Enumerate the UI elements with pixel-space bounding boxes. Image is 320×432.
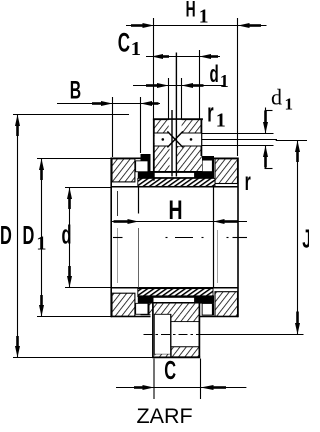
flange left face line <box>110 158 112 318</box>
sleeve small centreline <box>144 334 201 336</box>
svg-text:B: B <box>70 77 81 105</box>
svg-text:r: r <box>245 168 251 196</box>
body bottom edge line <box>111 316 238 318</box>
dimension B <box>57 77 160 157</box>
title ZARF <box>137 404 193 428</box>
svg-text:J: J <box>302 224 309 254</box>
svg-text:1: 1 <box>131 38 141 60</box>
cage row lines extending right <box>202 134 277 146</box>
bore surface bottom line <box>111 287 238 289</box>
dimension C <box>116 355 246 399</box>
seal black band bottom <box>138 295 214 315</box>
axial roller with X cross <box>167 131 183 147</box>
dimension d <box>62 188 112 288</box>
dimension d1 top <box>133 62 229 119</box>
cage pocket white square left bottom <box>135 303 148 315</box>
bore surface top line <box>111 186 238 188</box>
svg-text:1: 1 <box>36 233 46 255</box>
cage centre dots <box>162 138 193 141</box>
shaft washer bottom hatch band <box>150 304 200 315</box>
sleeve right end line seen through bore <box>213 187 215 288</box>
sleeve divider line <box>170 314 172 357</box>
flange inner face line seen through bore <box>138 187 140 288</box>
svg-text:H: H <box>169 195 183 225</box>
main centreline <box>113 237 247 239</box>
needle roller band top (rope pattern) <box>138 178 215 186</box>
svg-text:1: 1 <box>220 71 229 91</box>
sleeve bore white cell left <box>154 314 171 354</box>
svg-text:1: 1 <box>199 6 209 27</box>
label r1 <box>207 98 226 132</box>
seal black band top <box>138 154 214 178</box>
dimension D <box>0 115 153 358</box>
sleeve right cell white <box>171 322 199 347</box>
svg-text:C: C <box>164 355 176 385</box>
svg-text:ZARF: ZARF <box>137 404 193 428</box>
outer ring right block top (hatched) <box>215 159 238 184</box>
body top edge line <box>111 157 238 159</box>
sleeve left cell bottom hatch sliver <box>154 354 171 357</box>
lubrication hole lines <box>172 53 176 177</box>
outer ring left block top (hatched) <box>112 159 135 182</box>
svg-text:1: 1 <box>285 95 294 114</box>
sleeve lower hatch <box>171 347 199 357</box>
dimension H <box>111 195 247 225</box>
lubrication hole white column <box>170 146 177 171</box>
svg-text:D: D <box>0 220 12 250</box>
svg-text:D: D <box>23 220 35 250</box>
dimension C1 <box>118 28 220 119</box>
needle roller band bottom (rope pattern) <box>138 289 213 297</box>
cage pocket white square left top <box>135 160 148 172</box>
svg-text:H: H <box>186 0 196 21</box>
cage slot white top <box>0 0 1 1</box>
dimension D1 <box>23 159 112 317</box>
axial bearing block (hatched body) <box>153 119 203 181</box>
svg-text:1: 1 <box>216 110 226 132</box>
svg-text:d: d <box>62 220 72 250</box>
sleeve outline edges <box>152 303 200 357</box>
cage pocket white square right bottom <box>202 303 213 316</box>
body right face line <box>237 158 239 318</box>
shaft washer hatch step right <box>171 314 199 321</box>
outer ring right block bottom (hatched) <box>215 292 238 317</box>
label r <box>245 168 251 196</box>
svg-text:d: d <box>271 85 282 110</box>
axial cage row white band <box>154 133 202 146</box>
cage slot white bottom <box>154 298 195 302</box>
dimension d1 bold right <box>263 85 293 169</box>
dimension H1 <box>126 0 267 156</box>
axial roller top white gap <box>169 120 182 133</box>
svg-text:r: r <box>207 98 214 128</box>
svg-text:d: d <box>210 62 219 88</box>
svg-text:C: C <box>118 28 130 58</box>
sleeve left end line seen through bore <box>118 191 218 283</box>
cage pocket white square right top <box>202 160 213 173</box>
dimension J <box>200 141 312 335</box>
outer ring left block bottom (hatched) <box>112 293 135 316</box>
